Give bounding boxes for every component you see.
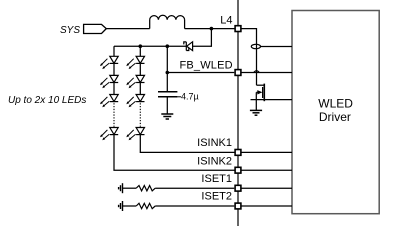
wire R1 to ISET1	[155, 187, 234, 189]
wire column to ISINK2	[114, 135, 235, 171]
terminal ISINK1	[235, 150, 241, 156]
wire source to driver	[251, 99, 293, 101]
wire SYS to inductor	[106, 28, 149, 30]
svg-text:4.7µ: 4.7µ	[181, 92, 199, 102]
node SW junction dot	[210, 27, 214, 31]
LED D4	[100, 95, 118, 108]
ground left of R2	[119, 201, 123, 211]
svg-text:ISINK1: ISINK1	[197, 137, 232, 149]
LED D2	[100, 56, 118, 69]
svg-text:ISINK2: ISINK2	[197, 155, 232, 167]
wire sense to driver	[261, 46, 293, 48]
LED D6	[126, 56, 144, 69]
wire FB_WLED left	[167, 72, 234, 74]
wire	[139, 83, 141, 95]
wire dotted continuation	[113, 103, 115, 127]
svg-text:FB_WLED: FB_WLED	[179, 60, 232, 72]
LED D7	[126, 75, 144, 88]
node rail-column2 junction	[139, 44, 143, 48]
wire L4 pin to switch branch	[241, 29, 257, 45]
resistor R1	[136, 186, 155, 191]
connector bus vertical line	[237, 0, 239, 226]
svg-text:Up to 2x 10 LEDs: Up to 2x 10 LEDs	[8, 95, 86, 106]
terminal ISET2	[235, 203, 241, 209]
wire	[113, 83, 115, 95]
svg-text:WLED: WLED	[318, 97, 353, 111]
LED string column 2	[126, 46, 235, 152]
svg-text:SYS: SYS	[60, 25, 80, 36]
terminal FB_WLED	[235, 70, 241, 76]
wire ISET2 to driver	[241, 205, 292, 207]
wire hop over switch branch	[254, 71, 260, 73]
wire column to ISINK1	[140, 135, 235, 153]
wire switch branch vertical	[256, 44, 258, 85]
svg-text:L4: L4	[220, 14, 232, 26]
terminal ISINK2	[235, 167, 241, 173]
net tag SYS	[84, 24, 107, 33]
wire LED anode rail	[114, 45, 186, 47]
wire	[113, 63, 115, 75]
WLED Driver box U1	[292, 11, 379, 214]
current sense loop	[251, 44, 260, 48]
ground below transistor	[250, 110, 262, 115]
wire ISET1 to driver	[241, 187, 292, 189]
LED D8	[126, 95, 144, 108]
inductor L	[150, 15, 185, 28]
wire ISINK1 to driver	[241, 151, 292, 153]
svg-text:ISET1: ISET1	[201, 173, 232, 185]
LED string column 1	[100, 46, 235, 170]
wire	[113, 46, 115, 56]
wire ISINK2 to driver	[241, 169, 292, 171]
wire ground to R1	[123, 187, 137, 189]
resistor R2	[136, 203, 155, 208]
wire SW node down to diode anode	[193, 29, 212, 47]
svg-text:Driver: Driver	[319, 110, 351, 124]
LED D5	[100, 128, 118, 141]
terminal L4	[235, 26, 241, 32]
ground left of R1	[119, 183, 123, 193]
wire dotted continuation	[139, 103, 141, 127]
wire ground to R2	[123, 205, 137, 207]
transistor Q1 (NMOS switch)	[256, 84, 264, 110]
node FB junction dot	[166, 71, 170, 75]
wire inductor to L4 pin	[185, 28, 236, 30]
LED D9	[126, 128, 144, 141]
wire FB_WLED to driver	[241, 72, 292, 74]
LED D3	[100, 75, 118, 88]
schottky diode D1	[184, 42, 193, 51]
svg-text:ISET2: ISET2	[201, 191, 232, 203]
terminal ISET1	[235, 185, 241, 191]
wire R2 to ISET2	[155, 205, 234, 207]
wire	[139, 46, 141, 56]
ground below capacitor	[161, 114, 173, 119]
node rail-capacitor junction	[166, 44, 170, 48]
capacitor C1 4.7u	[158, 92, 181, 114]
wire	[139, 63, 141, 75]
wire rail to capacitor / FB node	[166, 46, 168, 91]
